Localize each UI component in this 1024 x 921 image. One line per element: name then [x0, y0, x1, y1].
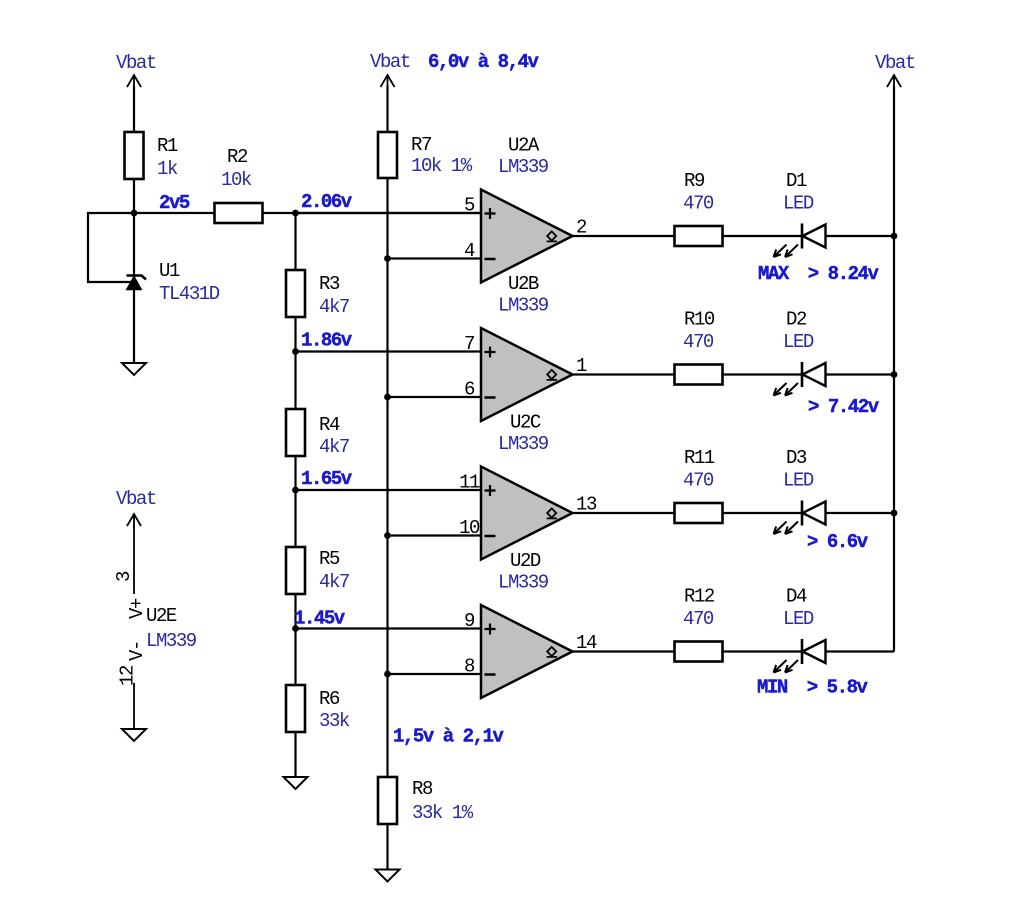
- svg-text:V+: V+: [126, 598, 148, 619]
- svg-text:4: 4: [464, 240, 475, 262]
- resistor R5: [286, 547, 349, 594]
- svg-text:R7: R7: [411, 134, 431, 156]
- svg-text:R3: R3: [319, 273, 340, 295]
- resistor R2: [215, 146, 263, 223]
- wire right Vbat rail: [893, 86, 895, 652]
- svg-text:7: 7: [464, 333, 474, 355]
- svg-text:470: 470: [683, 470, 714, 492]
- svg-text:12: 12: [117, 665, 139, 686]
- wire U1 feedback loop: [88, 213, 134, 282]
- svg-text:R5: R5: [319, 548, 340, 570]
- power flag Vbat (U2E): [116, 488, 156, 527]
- wire R3 to node: [294, 317, 296, 352]
- power flag Vbat (right): [875, 52, 915, 88]
- resistor R10: [675, 309, 723, 385]
- shunt regulator U1 TL431D: [127, 260, 220, 305]
- svg-text:MIN > 5.8v: MIN > 5.8v: [757, 677, 869, 699]
- wire minus input pin 4: [388, 257, 482, 259]
- svg-text:4k7: 4k7: [319, 571, 349, 593]
- svg-text:LED: LED: [783, 470, 814, 492]
- LED D4: [774, 586, 826, 673]
- ground (R6): [284, 777, 308, 789]
- resistor R1: [125, 132, 178, 180]
- resistor R7: [378, 132, 473, 178]
- resistor R8: [378, 777, 474, 824]
- svg-text:470: 470: [683, 608, 714, 630]
- wire output pin 13 to R11: [573, 512, 675, 514]
- wire R2 to U2A plus input: [263, 212, 482, 214]
- wire node to U1 cathode: [133, 213, 135, 275]
- svg-text:U2E: U2E: [146, 605, 177, 627]
- svg-text:1.86v: 1.86v: [301, 330, 353, 352]
- wire output pin 14 to R12: [573, 650, 675, 652]
- wire minus input pin 10: [388, 534, 482, 536]
- wire R12 to D4: [723, 650, 803, 652]
- resistor R12: [675, 586, 723, 662]
- svg-text:Vbat: Vbat: [370, 51, 410, 73]
- svg-text:R4: R4: [319, 414, 340, 436]
- junction node 1.86v: [292, 348, 299, 355]
- wire plus input pin 9: [296, 627, 482, 629]
- resistor R11: [675, 447, 723, 523]
- svg-text:U2D: U2D: [510, 550, 541, 572]
- svg-text:9: 9: [464, 610, 475, 632]
- svg-text:R8: R8: [412, 778, 433, 800]
- junction bus tap pin 6: [384, 394, 391, 401]
- resistor R6: [286, 685, 350, 732]
- wire node 2v5 to R2: [134, 212, 215, 214]
- wire D4 to Vbat rail: [826, 650, 895, 652]
- svg-text:6: 6: [464, 379, 475, 401]
- wire D1 to Vbat rail: [826, 235, 895, 237]
- wire R5 to node: [294, 594, 296, 629]
- svg-text:10k 1%: 10k 1%: [411, 155, 473, 177]
- svg-text:4k7: 4k7: [319, 296, 349, 318]
- op-amp U2B LM339: [464, 273, 587, 421]
- svg-text:33k: 33k: [319, 710, 350, 732]
- svg-text:3: 3: [113, 571, 135, 582]
- wire R6 to ground: [294, 732, 296, 777]
- wire output pin 1 to R10: [573, 373, 675, 375]
- svg-text:11: 11: [459, 472, 480, 494]
- wire chain to R4: [294, 352, 296, 410]
- svg-text:Vbat: Vbat: [116, 488, 156, 510]
- svg-text:D4: D4: [786, 586, 807, 608]
- svg-text:6,0v à 8,4v: 6,0v à 8,4v: [428, 51, 540, 73]
- svg-text:V-: V-: [126, 641, 148, 661]
- svg-text:U2C: U2C: [510, 412, 541, 434]
- svg-text:1,5v à 2,1v: 1,5v à 2,1v: [393, 726, 505, 748]
- LED D1: [774, 170, 826, 257]
- junction node 2v5: [131, 210, 138, 217]
- resistor R3: [286, 270, 349, 318]
- svg-text:> 7.42v: > 7.42v: [808, 396, 880, 418]
- junction rail: [891, 510, 898, 517]
- op-amp U2E power pins LM339: [113, 525, 197, 729]
- ground (U2E): [122, 729, 146, 741]
- svg-text:LM339: LM339: [498, 156, 549, 178]
- power flag Vbat (middle): [370, 51, 410, 88]
- svg-text:MAX > 8.24v: MAX > 8.24v: [758, 263, 879, 285]
- junction node 2.06v: [292, 210, 299, 217]
- resistor R9: [675, 170, 723, 246]
- svg-text:R1: R1: [157, 135, 178, 157]
- svg-text:2v5: 2v5: [159, 192, 190, 214]
- svg-text:4k7: 4k7: [319, 436, 349, 458]
- wire R4 to node: [294, 456, 296, 490]
- ground (R8): [376, 870, 400, 882]
- svg-text:1k: 1k: [157, 158, 178, 180]
- junction rail: [891, 371, 898, 378]
- svg-text:LED: LED: [783, 193, 814, 215]
- svg-text:10: 10: [459, 517, 480, 539]
- svg-text:1.45v: 1.45v: [294, 608, 346, 630]
- svg-text:10k: 10k: [221, 169, 252, 191]
- svg-text:33k 1%: 33k 1%: [412, 802, 474, 824]
- wire Vbat to R7: [386, 86, 388, 132]
- svg-text:LM339: LM339: [498, 433, 549, 455]
- power flag Vbat (top left): [116, 52, 156, 88]
- svg-text:Vbat: Vbat: [875, 52, 915, 74]
- wire Vbat to R1: [133, 86, 135, 132]
- svg-text:R11: R11: [684, 447, 715, 469]
- svg-text:D3: D3: [786, 447, 807, 469]
- svg-text:LED: LED: [783, 608, 814, 630]
- svg-text:470: 470: [683, 331, 714, 353]
- junction node 1.65v: [292, 487, 299, 494]
- junction rail: [891, 233, 898, 240]
- wire U1 anode to ground: [133, 290, 135, 364]
- svg-text:470: 470: [683, 193, 714, 215]
- svg-text:R6: R6: [319, 688, 340, 710]
- svg-text:U1: U1: [159, 260, 180, 282]
- op-amp U2A LM339: [464, 135, 587, 283]
- wire output pin 2 to R9: [573, 235, 675, 237]
- wire minus input pin 6: [388, 396, 482, 398]
- svg-text:U2B: U2B: [508, 273, 539, 295]
- wire minus input pin 8: [388, 673, 482, 675]
- svg-text:1.65v: 1.65v: [301, 468, 353, 490]
- wire chain to R5: [294, 490, 296, 547]
- wire R8 to ground: [386, 824, 388, 870]
- wire R10 to D2: [723, 373, 803, 375]
- op-amp U2D LM339: [464, 550, 597, 698]
- LED D2: [774, 309, 826, 396]
- svg-text:R2: R2: [227, 146, 248, 168]
- svg-text:Vbat: Vbat: [116, 52, 156, 74]
- wire D3 to Vbat rail: [826, 512, 895, 514]
- svg-text:LM339: LM339: [146, 630, 197, 652]
- svg-text:LED: LED: [783, 331, 814, 353]
- op-amp U2C LM339: [459, 412, 597, 560]
- wire plus input pin 7: [296, 350, 482, 352]
- resistor R4: [286, 409, 349, 458]
- wire sense bus R7 to R8: [386, 178, 388, 777]
- wire R11 to D3: [723, 512, 803, 514]
- ground (U1): [122, 363, 146, 375]
- junction node 1.45v: [292, 625, 299, 632]
- svg-text:8: 8: [464, 656, 475, 678]
- svg-text:R12: R12: [684, 586, 715, 608]
- svg-text:LM339: LM339: [498, 572, 549, 594]
- svg-text:R10: R10: [684, 309, 715, 331]
- junction bus tap pin 4: [384, 255, 391, 262]
- svg-text:R9: R9: [684, 170, 705, 192]
- svg-text:> 6.6v: > 6.6v: [807, 531, 869, 553]
- wire plus input pin 5: [296, 212, 482, 214]
- svg-text:U2A: U2A: [508, 135, 540, 157]
- wire chain to R3: [294, 213, 296, 270]
- svg-text:TL431D: TL431D: [159, 283, 220, 305]
- wire R9 to D1: [723, 235, 803, 237]
- wire plus input pin 11: [296, 489, 482, 491]
- svg-text:2.06v: 2.06v: [301, 191, 353, 213]
- svg-text:D1: D1: [786, 170, 807, 192]
- wire chain to R6: [294, 629, 296, 686]
- wire R1 to node 2v5: [133, 179, 135, 213]
- LED D3: [774, 447, 826, 534]
- svg-text:LM339: LM339: [498, 295, 549, 317]
- wire D2 to Vbat rail: [826, 373, 895, 375]
- junction bus tap pin 8: [384, 671, 391, 678]
- svg-text:5: 5: [464, 195, 475, 217]
- junction bus tap pin 10: [384, 532, 391, 539]
- svg-text:D2: D2: [786, 309, 807, 331]
